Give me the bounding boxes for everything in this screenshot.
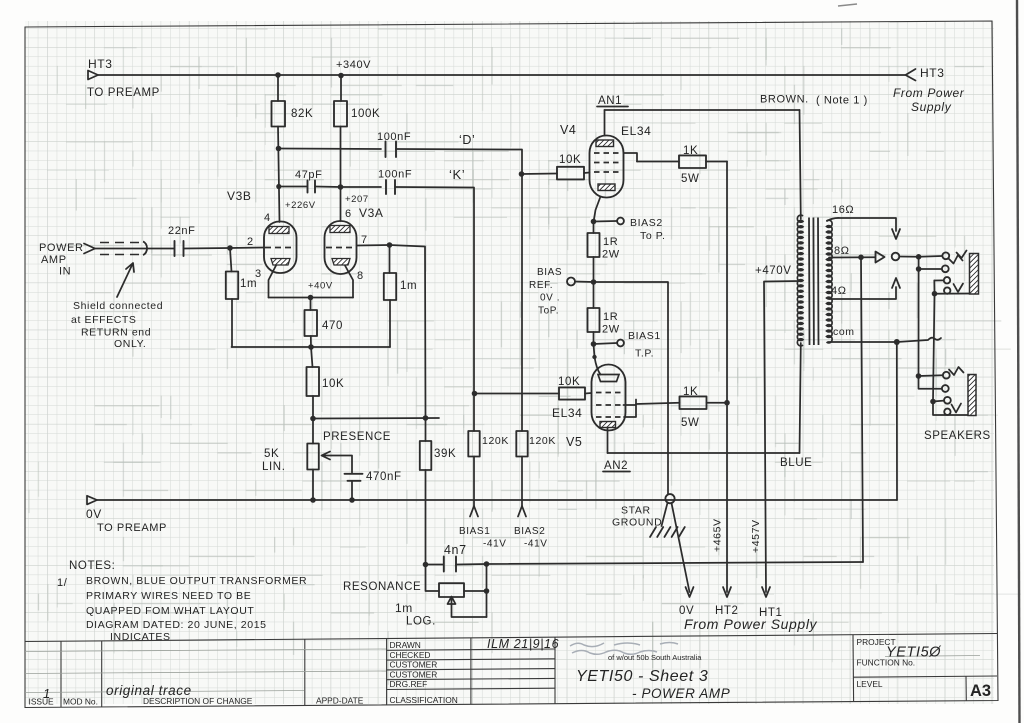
- jack1 panel wall: [970, 254, 979, 295]
- node dot resonance right: [484, 561, 490, 567]
- svg-text:of w/out 50b South Australia: of w/out 50b South Australia: [608, 653, 702, 662]
- node dot K branch: [338, 184, 344, 190]
- jack1 shorting top contact: [944, 277, 950, 283]
- arrow HT2 supply: [723, 587, 731, 597]
- node dot 47pF left: [276, 184, 281, 189]
- resistor 10K V4 grid: [557, 167, 584, 180]
- svg-text:HT3: HT3: [88, 57, 112, 71]
- svg-text:+207: +207: [345, 194, 369, 205]
- wire V3A grid to NFB corner: [390, 245, 426, 419]
- wire 39K bottom to resonance: [425, 470, 427, 565]
- test point BIAS2 circle: [617, 218, 624, 225]
- node dot jack2 third: [930, 399, 936, 405]
- wire jack1 link: [918, 257, 920, 269]
- wire NFB riser from 8 ohm: [861, 257, 863, 562]
- pentode V5 anode plate: [600, 422, 616, 428]
- jack2 lower spring tick: [952, 404, 962, 413]
- node dot V5 grid branch: [472, 391, 478, 397]
- svg-text:4Ω: 4Ω: [831, 285, 847, 297]
- resistor 470: [305, 310, 318, 336]
- triode V3B anode plate: [269, 227, 289, 234]
- title block drawn row line 2: [387, 659, 555, 660]
- wire 120K bottom lead: [473, 457, 475, 508]
- svg-text:REF.: REF.: [529, 280, 553, 291]
- svg-text:10K: 10K: [322, 378, 344, 390]
- jack1 tip contact: [942, 252, 949, 259]
- title block column MOD/DESCRIPTION divider: [101, 641, 103, 707]
- svg-text:V4: V4: [560, 123, 577, 137]
- title block DRAWN label/value divider: [470, 638, 472, 704]
- capacitor 470nF presence: [345, 474, 363, 481]
- AN2 underline: [603, 471, 630, 473]
- ground chassis hatch: [650, 527, 685, 537]
- triode V3A grid dashes: [326, 247, 356, 249]
- svg-text:( Note 1 ): ( Note 1 ): [816, 95, 868, 107]
- title block left faint row line b: [25, 671, 386, 674]
- input arrow: [84, 244, 95, 254]
- wire V4 anode lead: [604, 110, 606, 135]
- svg-text:22nF: 22nF: [168, 225, 195, 237]
- title block column ISSUE/MOD divider: [60, 641, 62, 707]
- svg-text:Supply: Supply: [911, 100, 952, 114]
- svg-text:AN2: AN2: [604, 460, 628, 472]
- wire jack2 third lead: [933, 400, 944, 403]
- arrow 4 ohm selector: [892, 278, 900, 288]
- wire 1R lower bottom lead: [593, 332, 595, 344]
- arrow bias1 feed: [470, 506, 478, 517]
- wire 1R lower top lead: [593, 282, 595, 308]
- svg-text:2W: 2W: [602, 324, 620, 336]
- svg-text:APPD-DATE: APPD-DATE: [316, 696, 364, 706]
- pentode V4 envelope: [590, 136, 624, 198]
- node dot bias1 tp: [591, 341, 597, 347]
- wire 1R upper bottom lead: [593, 257, 595, 282]
- wire blue up to transformer: [800, 343, 801, 453]
- presence wiper arrow: [322, 452, 332, 460]
- title block right section divider: [852, 635, 855, 702]
- svg-text:QUAPPED FOM WHAT LAYOUT: QUAPPED FOM WHAT LAYOUT: [86, 605, 254, 617]
- svg-text:BROWN, BLUE OUTPUT TRANSFORMER: BROWN, BLUE OUTPUT TRANSFORMER: [86, 575, 307, 587]
- node dot jack1 tip: [916, 254, 922, 260]
- svg-text:0V .: 0V .: [540, 293, 560, 304]
- wire V3A cathode: [345, 266, 353, 298]
- svg-text:BIAS2: BIAS2: [514, 526, 545, 537]
- transformer T1 secondary winding: [827, 220, 833, 343]
- svg-text:6: 6: [345, 208, 352, 220]
- node dot V4 grid branch: [519, 171, 525, 177]
- pentode V4 grid dashes: [594, 153, 619, 172]
- title block drawn row line 5: [387, 688, 555, 689]
- wire com tap: [828, 341, 897, 343]
- arrow 16 ohm selector: [892, 229, 900, 239]
- svg-text:SPEAKERS: SPEAKERS: [924, 430, 991, 442]
- title block left faint row line a: [25, 649, 386, 652]
- wire 82K bottom to V3B anode: [278, 127, 280, 223]
- svg-text:1R: 1R: [603, 311, 618, 323]
- svg-text:1: 1: [43, 686, 51, 701]
- wire resonance cap right lead: [456, 563, 487, 566]
- AN1 underline: [597, 106, 628, 108]
- wire 470 top lead: [310, 298, 312, 311]
- arrow bias2 feed: [518, 506, 526, 517]
- svg-text:-41V: -41V: [524, 539, 548, 550]
- jack1 shorting bar left: [933, 281, 935, 294]
- pentode V4 anode plate: [596, 140, 614, 147]
- wire bias ref to node: [575, 281, 594, 284]
- svg-text:V5: V5: [566, 435, 583, 449]
- wire resonance pot left lead: [426, 565, 440, 592]
- wire 120L bottom lead: [521, 457, 523, 508]
- node dot 39K top: [423, 415, 429, 421]
- jack1 tip spring: [949, 255, 963, 264]
- svg-text:AN1: AN1: [598, 95, 622, 107]
- wire K branch left: [341, 186, 382, 188]
- node dot V4 cathode: [591, 219, 597, 225]
- wire screen to 1K: [637, 161, 679, 163]
- node dot tail junction: [308, 344, 314, 350]
- 0V rail arrow: [87, 496, 97, 505]
- svg-text:LOG.: LOG.: [406, 616, 436, 628]
- wire bias ref to star ground: [594, 282, 669, 494]
- star ground circle: [665, 494, 674, 503]
- svg-text:MOD No.: MOD No.: [63, 696, 98, 706]
- wire D branch right: [396, 149, 522, 431]
- title block project row faint line: [885, 656, 980, 657]
- svg-text:GROUND: GROUND: [612, 517, 662, 529]
- svg-text:STAR: STAR: [621, 505, 651, 517]
- wire grid node to 1m left: [230, 248, 232, 272]
- svg-text:+465V: +465V: [712, 518, 724, 552]
- title block drawn row line 1: [387, 649, 555, 650]
- wire resonance wiper return: [452, 605, 487, 618]
- wire jack1 second lead: [919, 268, 942, 270]
- node dot presence top: [310, 416, 316, 422]
- wire V3A grid lead: [357, 244, 390, 247]
- svg-text:10K: 10K: [558, 376, 580, 388]
- wire jack2 tip lead: [919, 374, 943, 377]
- svg-text:PRIMARY WIRES NEED TO BE: PRIMARY WIRES NEED TO BE: [86, 590, 251, 602]
- svg-text:ONLY.: ONLY.: [114, 338, 146, 350]
- resistor 39K: [420, 441, 432, 470]
- capacitor 22nF: [175, 241, 184, 256]
- svg-text:LIN.: LIN.: [262, 461, 286, 473]
- svg-text:- POWER AMP: - POWER AMP: [632, 686, 730, 701]
- node dot D branch: [276, 146, 282, 152]
- svg-text:+470V: +470V: [755, 265, 792, 277]
- 0V rail wire: [97, 499, 897, 501]
- wire 47pF right: [315, 186, 341, 189]
- shield note arrow: [117, 263, 134, 297]
- svg-text:7: 7: [361, 234, 368, 246]
- svg-text:39K: 39K: [434, 448, 456, 460]
- node dot cathode bus: [308, 295, 314, 301]
- wire grid node to V3B: [230, 247, 264, 250]
- svg-text:V3B: V3B: [227, 189, 251, 203]
- wire to BIAS2 test point: [594, 220, 617, 223]
- test point BIAS REF circle: [567, 278, 575, 286]
- resistor 120K bias2: [516, 431, 527, 457]
- capacitor 4n7: [444, 557, 456, 572]
- svg-text:‘D’: ‘D’: [459, 133, 475, 147]
- svg-text:Shield connected: Shield connected: [73, 300, 163, 312]
- svg-text:From Power: From Power: [893, 86, 965, 100]
- wire 470nF bottom lead: [351, 481, 353, 500]
- scan edge shadow line: [1017, 0, 1020, 723]
- node dot resonance left: [423, 562, 429, 568]
- svg-text:+40V: +40V: [308, 281, 333, 292]
- svg-text:5W: 5W: [681, 417, 699, 429]
- title block drawn row line 4: [387, 678, 555, 679]
- wire 8 ohm tap: [829, 256, 875, 258]
- potentiometer resonance 1m: [439, 583, 464, 597]
- wire feedback bus: [313, 417, 439, 420]
- wire brown down to transformer: [800, 110, 801, 219]
- pentode V4 cathode plate: [598, 184, 615, 191]
- resistor 1m right: [384, 273, 396, 300]
- svg-text:TO PREAMP: TO PREAMP: [87, 87, 160, 99]
- svg-text:ToP.: ToP.: [538, 306, 559, 317]
- triode V3A cathode plate: [332, 259, 350, 266]
- resistor 10K V5 grid: [559, 387, 585, 399]
- wire com stub: [897, 338, 941, 342]
- wire jack1 feed: [899, 256, 918, 258]
- wire 10K V4 to tube: [584, 172, 590, 175]
- wire 47pF left: [279, 186, 307, 188]
- wire bias chain into V5: [594, 344, 601, 375]
- node dot V3B grid: [227, 245, 233, 251]
- triode V3B envelope: [264, 222, 297, 274]
- svg-text:YETI50 - Sheet 3: YETI50 - Sheet 3: [576, 668, 708, 685]
- node dot v5 feed: [592, 355, 596, 359]
- svg-text:0V: 0V: [86, 507, 102, 521]
- resistor 1K V5 screen: [680, 396, 707, 409]
- svg-text:47pF: 47pF: [295, 169, 322, 181]
- svg-text:5W: 5W: [681, 173, 699, 185]
- node dot jack2 tip: [916, 373, 922, 379]
- svg-text:ILM 21|9|16: ILM 21|9|16: [487, 637, 559, 651]
- shielded cable dashes bottom: [100, 254, 142, 256]
- transformer T1 core: [809, 218, 819, 346]
- svg-text:8: 8: [357, 270, 364, 282]
- jack2 panel wall: [968, 375, 976, 416]
- svg-text:DRAWN: DRAWN: [390, 640, 421, 650]
- title block A3 box divider: [965, 676, 967, 700]
- wire 82K top lead: [277, 75, 279, 101]
- jack2 tip spring: [949, 367, 964, 375]
- svg-text:BIAS2: BIAS2: [630, 217, 663, 229]
- wire K branch right: [395, 187, 474, 431]
- wire resonance pot right lead: [464, 590, 487, 592]
- svg-text:NOTES:: NOTES:: [69, 560, 115, 572]
- title block left faint row line c: [25, 691, 304, 693]
- svg-text:8Ω: 8Ω: [834, 245, 850, 257]
- wire 22nF to grid node: [184, 247, 231, 250]
- resistor 1m left: [226, 272, 238, 300]
- wire 1K V5 to HT2 riser: [707, 402, 728, 404]
- triode V3B cathode plate: [271, 259, 290, 266]
- node dot 100K top: [338, 73, 344, 79]
- svg-text:HT3: HT3: [920, 66, 944, 80]
- wire tail bus: [232, 346, 391, 348]
- wire 1R top lead: [593, 222, 595, 234]
- wire D branch left: [279, 148, 382, 151]
- svg-text:original trace: original trace: [106, 683, 192, 698]
- pentode V5 envelope: [592, 365, 626, 431]
- svg-text:BLUE: BLUE: [780, 457, 812, 469]
- capacitor 100nF K: [386, 180, 395, 194]
- node dot resonance pot right: [484, 588, 490, 594]
- jack1 bottom rail: [935, 293, 978, 295]
- wire 10K tail top: [311, 347, 313, 367]
- jack2 fourth contact: [944, 409, 950, 415]
- svg-text:1m: 1m: [395, 601, 413, 615]
- resistor 1R lower: [588, 308, 600, 332]
- scan speck top: [838, 4, 857, 6]
- svg-text:1m: 1m: [240, 278, 257, 290]
- svg-text:100nF: 100nF: [378, 169, 412, 181]
- svg-text:A3: A3: [970, 682, 991, 700]
- title block function row line: [853, 676, 997, 677]
- title block mid section left divider: [554, 637, 556, 703]
- wire jack1 down run: [918, 269, 920, 376]
- wire V4 grid feed: [522, 173, 558, 176]
- wire to BIAS1 test point: [594, 343, 618, 344]
- svg-text:CUSTOMER: CUSTOMER: [390, 660, 438, 670]
- svg-text:2: 2: [247, 236, 254, 248]
- wire centre tap: [764, 281, 801, 592]
- jack2 second contact: [942, 385, 949, 392]
- svg-text:FUNCTION No.: FUNCTION No.: [857, 658, 916, 668]
- svg-text:AMP: AMP: [41, 254, 67, 266]
- capacitor 47pF: [308, 181, 316, 193]
- svg-text:470nF: 470nF: [366, 471, 402, 483]
- wire V4 cathode lead: [594, 197, 601, 223]
- wire NFB line to 8 ohm tap: [487, 562, 864, 564]
- jack1 lower contact: [944, 287, 950, 293]
- wire HT2 riser: [726, 162, 728, 593]
- jack1 second contact: [942, 265, 949, 272]
- HT3 rail wire: [97, 74, 905, 76]
- resonance wiper arrow: [448, 597, 456, 605]
- svg-text:BIAS: BIAS: [537, 267, 562, 278]
- svg-text:+226V: +226V: [285, 200, 316, 211]
- wire 16 ohm tap: [827, 218, 896, 231]
- wire star to chassis: [662, 503, 668, 526]
- svg-text:5K: 5K: [264, 448, 279, 460]
- wire 100K top lead: [340, 76, 342, 102]
- wire presence wiper: [331, 456, 352, 473]
- svg-text:4: 4: [264, 212, 271, 224]
- shielded cable dashes top: [100, 242, 142, 244]
- svg-text:82K: 82K: [291, 108, 313, 120]
- wire resonance right vertical: [486, 564, 488, 617]
- svg-text:com: com: [833, 326, 855, 338]
- selector circle 8 ohm: [892, 253, 900, 261]
- svg-text:BIAS1: BIAS1: [459, 526, 490, 537]
- wire cathode bus: [269, 297, 354, 299]
- node dot V3A grid: [387, 242, 393, 248]
- svg-text:10K: 10K: [559, 154, 581, 166]
- svg-text:1/: 1/: [57, 577, 68, 589]
- svg-text:120K: 120K: [482, 435, 509, 447]
- wire 100K bottom to V3A anode: [340, 127, 342, 222]
- svg-text:1R: 1R: [603, 236, 618, 248]
- resistor 1R upper: [588, 233, 600, 257]
- svg-text:CUSTOMER: CUSTOMER: [390, 669, 438, 679]
- wire 470 bottom lead: [310, 336, 312, 347]
- node dot jack1 shorting: [932, 291, 938, 297]
- svg-text:4n7: 4n7: [444, 543, 467, 557]
- wire blue anode run: [608, 452, 800, 454]
- V5 screen tap: [624, 400, 637, 418]
- svg-text:V3A: V3A: [359, 206, 383, 220]
- svg-text:DIAGRAM DATED: 20 JUNE, 2015: DIAGRAM DATED: 20 JUNE, 2015: [86, 619, 267, 631]
- triode V3B grid dashes: [265, 247, 295, 249]
- svg-text:IN: IN: [59, 266, 71, 278]
- svg-text:100nF: 100nF: [377, 131, 411, 143]
- node dot bias ref: [591, 279, 597, 285]
- svg-text:BIAS1: BIAS1: [628, 330, 661, 342]
- jack1 spring tick: [957, 251, 967, 259]
- node dot 82K top: [275, 72, 281, 78]
- wire jack2 bottom leg: [933, 402, 976, 416]
- triode V3A envelope: [325, 221, 357, 274]
- pentode V5 cathode plate: [598, 375, 619, 382]
- wire presence pot bottom lead: [312, 470, 314, 501]
- wire star to 0V supply: [672, 503, 690, 592]
- node dot 8 ohm NFB: [858, 254, 864, 260]
- svg-text:+340V: +340V: [336, 59, 371, 71]
- wire 10K tail bottom: [312, 396, 314, 419]
- svg-text:100K: 100K: [351, 108, 380, 120]
- resistor 1m right top lead: [389, 245, 391, 273]
- selector triangle 8 ohm: [876, 252, 885, 263]
- svg-text:T.P.: T.P.: [635, 348, 654, 360]
- wire resonance cap left lead: [426, 564, 444, 566]
- wire jack2 second leg: [919, 376, 942, 389]
- node dot HT2 riser: [724, 400, 730, 406]
- svg-text:120K: 120K: [529, 435, 556, 447]
- HT3 right arrow: [906, 69, 916, 81]
- svg-text:PRESENCE: PRESENCE: [323, 431, 391, 443]
- arrow HT1 supply: [762, 587, 770, 597]
- resistor 1K V4 screen: [679, 155, 706, 168]
- node dot 470nF 0V: [349, 497, 355, 503]
- svg-text:2W: 2W: [602, 249, 620, 261]
- wire 1m left bottom: [231, 299, 233, 347]
- wire 10K V5 to tube: [585, 392, 592, 395]
- svg-text:POWER: POWER: [39, 242, 84, 254]
- HT3 left arrow: [88, 71, 98, 80]
- resistor 10K tail: [307, 367, 320, 396]
- svg-text:+457V: +457V: [750, 519, 762, 553]
- jack2 third contact: [944, 397, 951, 404]
- wire V5 anode lead: [607, 428, 609, 454]
- svg-text:INDICATES: INDICATES: [110, 631, 171, 643]
- svg-text:-41V: -41V: [483, 539, 507, 550]
- V4 screen tap: [624, 153, 638, 162]
- svg-text:From Power Supply: From Power Supply: [684, 616, 818, 632]
- node dot jack1 second: [916, 266, 922, 272]
- wire jack2 link run: [933, 294, 935, 402]
- wire V5 grid feed: [475, 393, 560, 395]
- capacitor 100nF D: [386, 142, 397, 158]
- test point BIAS1 circle: [617, 340, 624, 347]
- svg-text:‘K’: ‘K’: [449, 167, 465, 182]
- title block top line: [25, 634, 997, 642]
- jack1 shorting top lead: [934, 279, 943, 281]
- transformer T1 primary winding: [797, 215, 803, 346]
